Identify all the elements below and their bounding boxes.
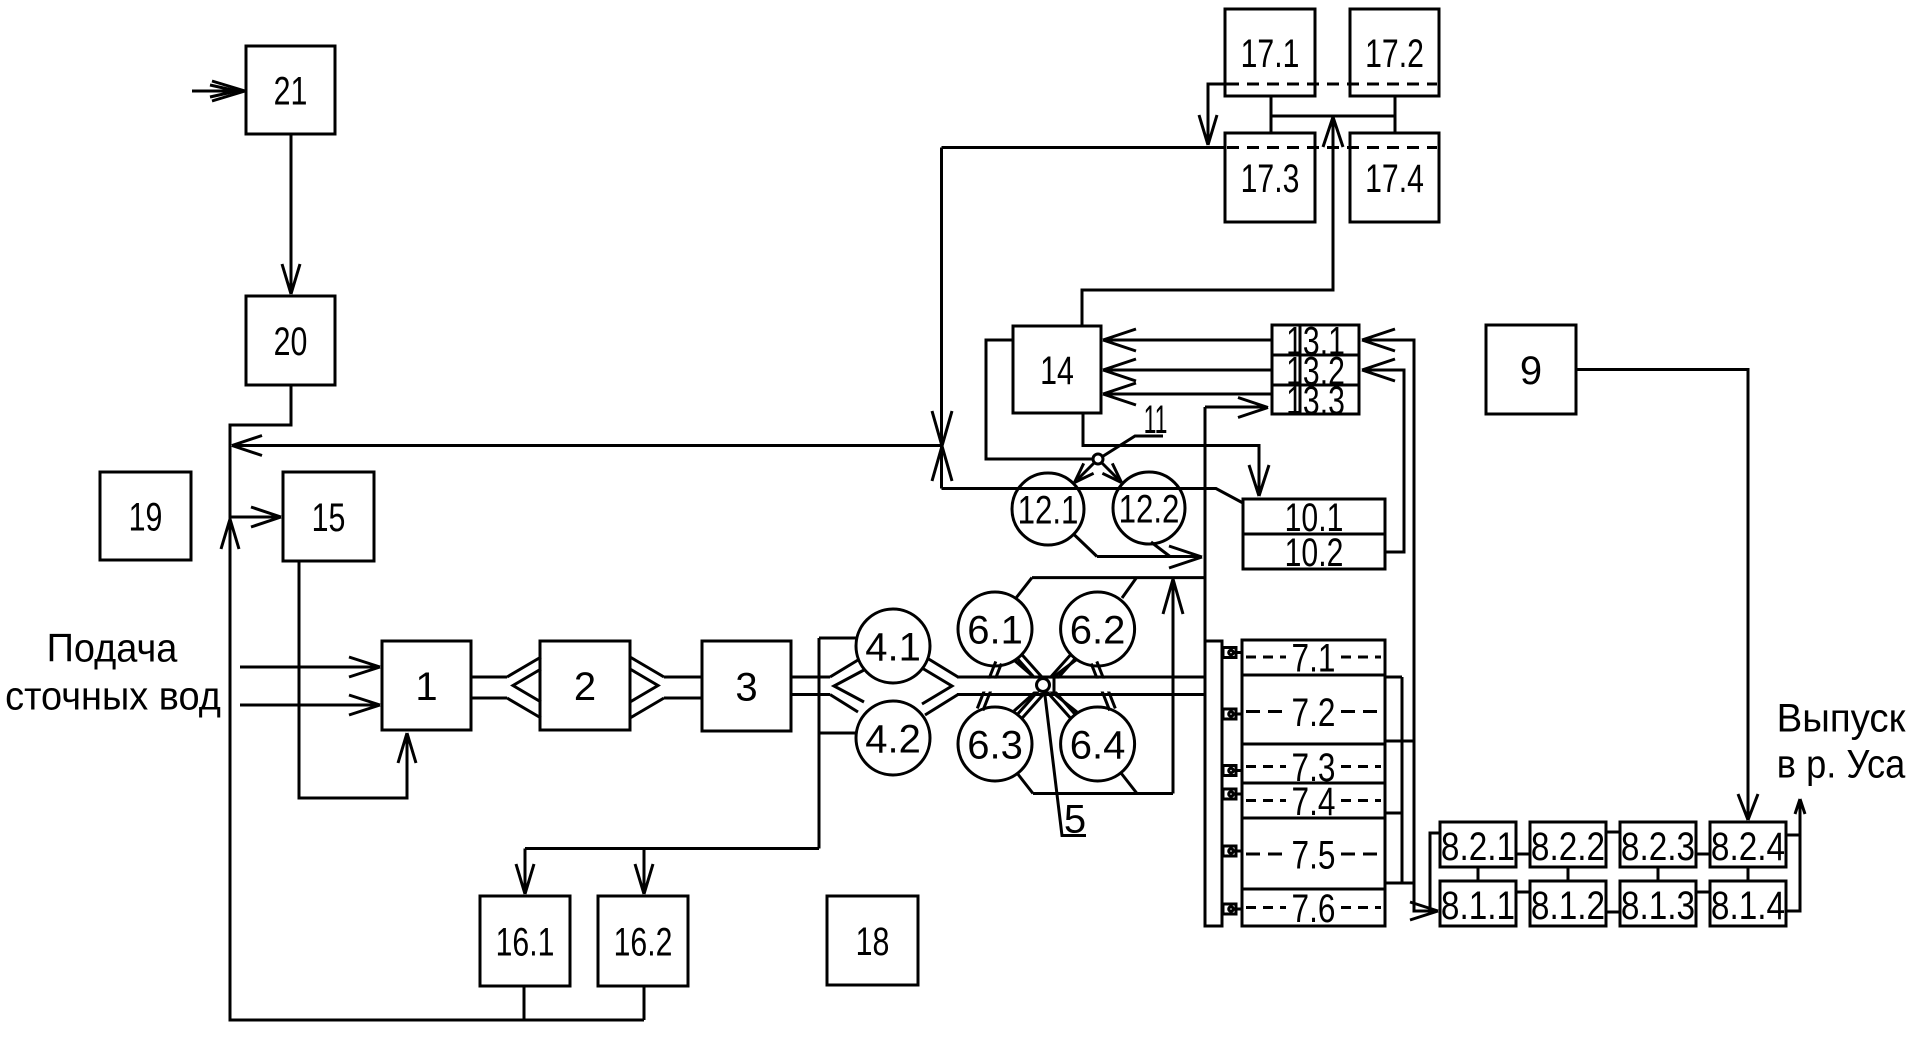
svg-text:Выпуск: Выпуск xyxy=(1777,697,1907,741)
svg-text:10.2: 10.2 xyxy=(1285,530,1344,575)
dashes 7.3 right xyxy=(1341,765,1381,768)
svg-text:5: 5 xyxy=(1064,798,1086,842)
wire 16.1 bottom xyxy=(523,986,526,1020)
connector square 7.6 xyxy=(1223,904,1236,914)
main vertical to distributor bar xyxy=(1204,407,1207,641)
svg-text:7.5: 7.5 xyxy=(1292,832,1336,877)
svg-text:7.1: 7.1 xyxy=(1292,635,1336,680)
wire branch to 15 xyxy=(230,516,279,519)
rails diamond to distributor bar xyxy=(958,676,1205,679)
stub 7 bus c xyxy=(1385,812,1402,815)
arrowhead into 1 upper xyxy=(349,657,380,677)
block 3 xyxy=(702,641,791,731)
arrowhead into 16.1 xyxy=(516,864,534,894)
arrowhead into 13.1 xyxy=(1362,329,1395,351)
svg-text:16.1: 16.1 xyxy=(496,919,555,964)
wire y=147 to 17.3 xyxy=(942,146,1226,149)
pump 4.2 xyxy=(856,701,930,775)
circle 6.4 xyxy=(1061,707,1135,781)
diamond chevron left xyxy=(834,670,864,702)
wire from 17.1 dashed line down xyxy=(1208,84,1227,142)
bundle 6.2-6.4 b xyxy=(1091,664,1110,711)
svg-text:11: 11 xyxy=(1144,396,1168,441)
wire 14 top to 17 bus xyxy=(1082,120,1333,326)
merge wire 12.1/12.2 to vertical xyxy=(1074,535,1097,557)
wire 10.2 right up to 13.2 xyxy=(1365,370,1404,552)
wire 14 to node 11 xyxy=(986,340,1092,459)
block 15 xyxy=(283,472,374,561)
connector square 7.3 xyxy=(1223,766,1236,776)
block 9 xyxy=(1486,325,1576,414)
diamond outer diagonals left xyxy=(830,660,858,677)
svg-text:8.2.3: 8.2.3 xyxy=(1621,824,1695,869)
dashes 7.4 right xyxy=(1341,799,1381,802)
divider 7.5/7.6 xyxy=(1242,888,1385,891)
dashes 7.2 right xyxy=(1341,710,1381,713)
arrowhead into 1 lower xyxy=(349,695,380,715)
connector rails 2 to 3 xyxy=(664,676,702,679)
stub to 4.2 xyxy=(819,732,856,735)
svg-text:12.2: 12.2 xyxy=(1119,487,1180,532)
junction tick at node xyxy=(1053,677,1056,695)
divider 13.1/13.2 xyxy=(1272,354,1359,357)
discharge wire xyxy=(1786,834,1800,837)
svg-text:7.6: 7.6 xyxy=(1292,885,1336,930)
svg-text:12.1: 12.1 xyxy=(1018,488,1079,533)
block 19 xyxy=(100,472,191,560)
17 column links xyxy=(1270,96,1273,133)
svg-text:6.4: 6.4 xyxy=(1070,723,1126,767)
bypass vertical at pumps xyxy=(818,638,821,849)
svg-text:8.2.1: 8.2.1 xyxy=(1441,824,1515,869)
dashes 7.5 right xyxy=(1341,853,1381,856)
svg-text:20: 20 xyxy=(274,319,308,364)
diamond chevron right xyxy=(922,668,952,704)
feed wire into 8.1.1 and 8.2.1 xyxy=(1414,883,1435,911)
connector square 7.2 xyxy=(1223,709,1236,719)
link 8.2.1-8.1.1 xyxy=(1477,867,1480,881)
block 8.1.2 xyxy=(1530,881,1606,926)
connector square 7.4 xyxy=(1223,789,1236,799)
connector chevron 1 to 2 xyxy=(513,669,541,702)
svg-text:9: 9 xyxy=(1520,349,1542,393)
block 1 xyxy=(382,641,471,730)
arrowhead into 13.2 xyxy=(1362,359,1395,381)
distributor bar xyxy=(1205,641,1222,926)
bundle 6.1-6.3 b xyxy=(977,661,996,708)
block 17.4 xyxy=(1350,133,1439,222)
dashed line through 17.3/17.4 xyxy=(1227,146,1437,149)
arrowhead into 12.1 xyxy=(1075,463,1094,482)
block 16.2 xyxy=(598,896,688,986)
stub 7 bus d xyxy=(1385,882,1414,885)
rails 3 to diamond xyxy=(791,676,830,679)
leader line label 5 xyxy=(1045,691,1087,835)
arrowhead into 16.2 xyxy=(635,864,653,894)
row links 8.2.x xyxy=(1516,853,1530,856)
block 8.2.4 xyxy=(1710,822,1786,867)
wire 13.1 to 14 xyxy=(1106,339,1272,342)
wire 20 down-left long return line xyxy=(230,385,644,1020)
right bus vertical xyxy=(1401,677,1404,883)
block 10.1 xyxy=(1243,499,1385,534)
svg-text:21: 21 xyxy=(274,68,308,113)
ray node-6.2 xyxy=(1043,660,1077,686)
wire to 16.1/16.2 xyxy=(525,847,819,850)
bundle 6.2-6.3 a xyxy=(1022,659,1075,719)
inner divider 13 xyxy=(1299,325,1302,414)
block 10.2 xyxy=(1243,534,1385,569)
block 17.1 xyxy=(1225,9,1315,96)
dashed line through 17.1/17.2 xyxy=(1227,83,1437,86)
arrowhead right into vertical 1205 xyxy=(1169,546,1202,568)
svg-text:в р. Уса: в р. Уса xyxy=(1777,742,1906,787)
block 17.2 xyxy=(1350,9,1439,96)
circle 6.2 xyxy=(1061,592,1135,666)
circle 12.2 xyxy=(1113,472,1185,544)
circle 12.1 xyxy=(1012,473,1084,545)
dashes 7.4 left xyxy=(1246,799,1286,802)
rail redraw lower xyxy=(957,693,1204,696)
arrow second chevron xyxy=(210,85,237,97)
dashes 7.1 right xyxy=(1341,656,1381,659)
arrowhead into 20 xyxy=(282,264,300,294)
discharge arrowhead up xyxy=(1795,799,1805,814)
arrowhead left into vertical xyxy=(232,436,262,456)
arrowhead into 15 xyxy=(251,507,281,527)
bottom bus from 6.3/6.4 xyxy=(1017,773,1033,794)
arrowhead down into 10.1 xyxy=(1249,465,1269,496)
svg-text:4.2: 4.2 xyxy=(865,717,921,761)
feed wire 1 upper xyxy=(240,666,378,669)
leader label 11 xyxy=(1103,436,1164,457)
arrowhead up into 17 bus xyxy=(1323,117,1343,147)
stub 7 bus b xyxy=(1385,740,1414,743)
arrow into block 21 xyxy=(212,81,245,101)
17 bus xyxy=(1271,115,1395,118)
svg-text:8.2.4: 8.2.4 xyxy=(1711,824,1785,869)
svg-text:4.1: 4.1 xyxy=(865,625,921,669)
block 8.1.1 xyxy=(1440,881,1516,926)
valve X symbol xyxy=(932,411,952,481)
upper bus from 6.1/6.2 to main vertical xyxy=(1032,576,1205,579)
svg-text:18: 18 xyxy=(856,919,890,964)
arrowhead into 8.1.1 xyxy=(1410,902,1438,920)
link 8.2.3-8.1.3 xyxy=(1657,867,1660,881)
svg-text:6.2: 6.2 xyxy=(1070,608,1126,652)
block 8.2.1 xyxy=(1440,822,1516,867)
dashes 7.1 left xyxy=(1246,656,1286,659)
connector rails 1 to 2 xyxy=(471,676,507,679)
horizontal wire y=488 over clarifiers xyxy=(942,489,1244,504)
node 11 circle xyxy=(1093,454,1103,464)
riser from bottom bus xyxy=(1172,582,1175,794)
svg-text:8.1.3: 8.1.3 xyxy=(1621,883,1695,928)
svg-text:8.1.4: 8.1.4 xyxy=(1711,883,1785,928)
connector square 7.1 xyxy=(1223,648,1236,658)
ray node-6.3 xyxy=(1014,685,1043,711)
stub to 4.1 xyxy=(819,637,857,640)
block 21 xyxy=(246,46,335,134)
svg-text:6.1: 6.1 xyxy=(967,608,1023,652)
link 8.2.4-8.1.4 xyxy=(1747,867,1750,881)
ray node-6.1 xyxy=(1015,661,1044,686)
block 8.1.3 xyxy=(1620,881,1696,926)
node 5 junction xyxy=(1037,679,1050,692)
svg-text:Подача: Подача xyxy=(47,626,178,670)
block 8.1.4 xyxy=(1710,881,1786,926)
svg-text:6.3: 6.3 xyxy=(967,723,1023,767)
link 8.2.2-8.1.2 xyxy=(1567,867,1570,881)
svg-text:17.3: 17.3 xyxy=(1241,156,1300,201)
svg-text:17.2: 17.2 xyxy=(1365,31,1424,76)
svg-text:17.4: 17.4 xyxy=(1365,156,1424,201)
pump 4.1 xyxy=(856,609,930,683)
svg-text:8.1.1: 8.1.1 xyxy=(1441,883,1515,928)
block 7 stack xyxy=(1242,640,1385,926)
circle 6.3 xyxy=(958,707,1032,781)
wire 13.2 to 14 xyxy=(1106,369,1272,372)
wire right bus up to 13.1 xyxy=(1365,340,1414,883)
wire 15 to block 1 bottom xyxy=(299,561,407,798)
wire 21 to 20 xyxy=(290,134,293,292)
bundle 6.2-6.4 a xyxy=(1097,661,1116,708)
block 18 xyxy=(827,896,918,985)
wire to 13.3 xyxy=(1205,406,1265,409)
rail redraw upper xyxy=(957,676,1204,679)
block 14 xyxy=(1013,326,1101,413)
block 13 stack xyxy=(1272,325,1359,414)
svg-text:7.2: 7.2 xyxy=(1292,689,1336,734)
bundle 6.1-6.4 a xyxy=(1022,655,1075,715)
block 20 xyxy=(246,296,335,385)
connector funnel 1 to 2 xyxy=(507,657,541,677)
wire 9 to 8.2.4 xyxy=(1576,370,1748,818)
stub 7 bus a xyxy=(1385,676,1402,679)
dashes 7.6 right xyxy=(1341,906,1381,909)
wire 14 bottom to 10.1 xyxy=(1083,413,1259,493)
block 16.1 xyxy=(480,896,570,986)
svg-text:2: 2 xyxy=(574,665,596,709)
svg-text:3: 3 xyxy=(735,665,757,709)
long return wire y=445 xyxy=(234,444,942,447)
main left vertical x=941 xyxy=(940,148,943,489)
connector chevron 2 to 3 xyxy=(630,669,658,702)
svg-text:16.2: 16.2 xyxy=(614,919,673,964)
divider 7.1/7.2 xyxy=(1242,674,1385,677)
svg-text:8.2.2: 8.2.2 xyxy=(1531,824,1605,869)
bundle 6.2-6.3 b xyxy=(1017,655,1070,715)
feed wire 1 lower xyxy=(240,704,378,707)
dashes 7.5 left xyxy=(1246,853,1286,856)
arrowhead into 12.2 xyxy=(1102,463,1121,482)
bundle 6.1-6.4 b xyxy=(1017,659,1070,719)
block 8.2.3 xyxy=(1620,822,1696,867)
arrowhead into 14 c xyxy=(1103,383,1136,405)
arrowhead up into 1 xyxy=(398,733,416,763)
wire 16.2 bottom xyxy=(643,986,646,1020)
block 8.2.2 xyxy=(1530,822,1606,867)
wire 13.3 to 14 xyxy=(1106,393,1272,396)
row links 8.1.x xyxy=(1516,891,1530,894)
dashes 7.3 left xyxy=(1246,765,1286,768)
connector square 7.5 xyxy=(1223,846,1236,856)
rail pipe white gap xyxy=(957,679,1204,692)
bundle 6.1-6.3 a xyxy=(983,664,1002,711)
up arrowhead on vertical line xyxy=(221,519,239,549)
svg-text:7.4: 7.4 xyxy=(1292,778,1336,823)
svg-text:8.1.2: 8.1.2 xyxy=(1531,883,1605,928)
divider 13.2/13.3 xyxy=(1272,384,1359,387)
svg-text:13.3: 13.3 xyxy=(1286,378,1345,423)
svg-text:сточных вод: сточных вод xyxy=(5,674,221,718)
arrowhead into 14 a xyxy=(1103,329,1136,351)
block 17.3 xyxy=(1225,133,1315,222)
svg-text:14: 14 xyxy=(1040,348,1074,393)
svg-text:17.1: 17.1 xyxy=(1241,31,1300,76)
arrowhead up into bus 577 xyxy=(1163,579,1183,614)
dashes 7.2 left xyxy=(1246,710,1286,713)
divider 7.4/7.5 xyxy=(1242,817,1385,820)
svg-text:19: 19 xyxy=(129,494,163,539)
arrowhead down at 17.3 xyxy=(1199,115,1217,145)
svg-text:15: 15 xyxy=(312,495,346,540)
divider 7.2/7.3 xyxy=(1242,743,1385,746)
circle 6.1 xyxy=(958,592,1032,666)
divider 7.3/7.4 xyxy=(1242,782,1385,785)
arrowhead down into 8.2.4 xyxy=(1738,794,1758,820)
block 2 xyxy=(540,641,630,730)
diamond outer diagonals right xyxy=(927,658,958,677)
connector funnel 2 to 3 xyxy=(630,657,664,677)
ray node-6.4 xyxy=(1043,685,1077,712)
svg-text:1: 1 xyxy=(415,665,437,709)
arrowhead into 14 b xyxy=(1103,359,1136,381)
dashes 7.6 left xyxy=(1246,906,1286,909)
arrows node 11 to 12.1 and 12.2 xyxy=(1078,463,1095,480)
arrowhead into 13.3 xyxy=(1238,398,1268,418)
